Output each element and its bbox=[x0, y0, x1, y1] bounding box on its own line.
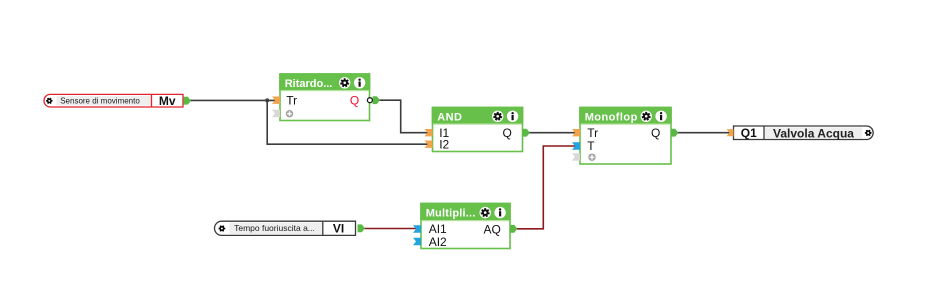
svg-text:Tr: Tr bbox=[286, 94, 297, 108]
svg-text:VI: VI bbox=[333, 222, 344, 236]
svg-text:Q: Q bbox=[350, 94, 359, 108]
svg-text:Q: Q bbox=[651, 126, 660, 140]
svg-text:Sensore di movimento: Sensore di movimento bbox=[60, 96, 140, 105]
svg-text:Monoflop: Monoflop bbox=[585, 112, 638, 124]
svg-text:Q1: Q1 bbox=[741, 126, 757, 140]
svg-text:AND: AND bbox=[437, 112, 462, 124]
svg-text:Tr: Tr bbox=[587, 126, 598, 140]
svg-text:Q: Q bbox=[502, 126, 511, 140]
svg-text:I2: I2 bbox=[439, 138, 449, 152]
svg-text:Tempo fuoriuscita a...: Tempo fuoriuscita a... bbox=[234, 223, 315, 233]
svg-text:AQ: AQ bbox=[483, 222, 500, 236]
svg-text:Multipli...: Multipli... bbox=[426, 208, 476, 220]
svg-text:AI2: AI2 bbox=[429, 235, 447, 249]
svg-text:Ritardo...: Ritardo... bbox=[285, 78, 333, 90]
svg-text:Mv: Mv bbox=[159, 94, 176, 108]
svg-text:Valvola Acqua: Valvola Acqua bbox=[773, 126, 854, 140]
svg-text:T: T bbox=[587, 139, 595, 153]
